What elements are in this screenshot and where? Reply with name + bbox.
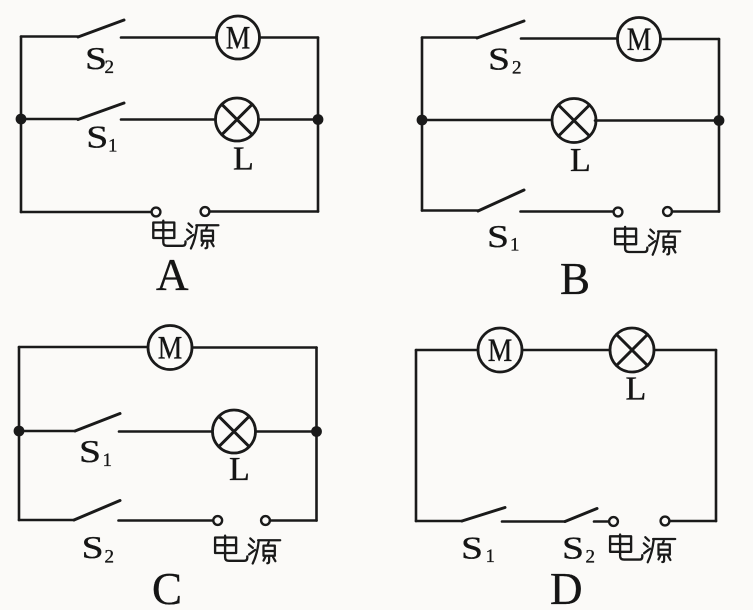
- wire: C bottom contact to battery: [119, 519, 214, 522]
- junction node: A left: [16, 114, 27, 125]
- svg-text:B: B: [560, 254, 590, 304]
- wire: B middle-left to lamp: [422, 119, 552, 122]
- junction node: A right: [313, 114, 324, 125]
- lamp L (circuit C): [213, 410, 256, 453]
- wire: A lamp to right vertical: [259, 118, 319, 121]
- svg-text:A: A: [156, 250, 189, 300]
- wire: D bottom-left segment: [416, 520, 462, 523]
- svg-text:1: 1: [108, 136, 118, 157]
- wire: A top contact to motor: [121, 36, 217, 39]
- wire: D left vertical: [415, 350, 418, 521]
- svg-text:S: S: [488, 41, 510, 77]
- svg-text:L: L: [570, 142, 591, 179]
- switch S2 blade (open): [78, 20, 124, 37]
- svg-text:2: 2: [105, 547, 115, 568]
- wire: B top contact to motor: [521, 37, 618, 40]
- wire: A bottom-left to battery: [21, 211, 152, 214]
- wire: C left vertical: [18, 347, 21, 520]
- svg-text:2: 2: [586, 547, 596, 568]
- wire: D between switches: [502, 520, 565, 523]
- wire: B left vertical: [421, 38, 424, 211]
- svg-text:M: M: [158, 331, 183, 367]
- battery terminal right (circuit D): [661, 517, 670, 526]
- label S1 (circuit C): [79, 433, 112, 471]
- battery terminal right (circuit C): [261, 516, 270, 525]
- svg-text:2: 2: [105, 57, 115, 78]
- label 电源 power source (circuit A): [153, 221, 218, 249]
- label 电源 power source (circuit B): [615, 227, 680, 255]
- svg-text:M: M: [627, 22, 652, 58]
- label S1 (circuit A): [86, 119, 117, 157]
- switch S2 blade (open, circuit B): [477, 21, 524, 38]
- wire: C middle contact to lamp: [119, 430, 213, 433]
- wire: A middle-left segment: [21, 118, 78, 121]
- junction node: B left: [417, 115, 428, 126]
- wire: B motor to right vertical: [661, 38, 720, 41]
- wire: A motor to right vertical: [260, 36, 319, 39]
- wire: C lamp to right vertical: [256, 430, 317, 433]
- motor M (circuit D): [478, 328, 522, 372]
- switch S2 blade (open, circuit C): [74, 501, 120, 521]
- switch S2 blade (open, circuit D): [565, 509, 597, 522]
- svg-text:M: M: [226, 20, 251, 56]
- svg-text:S: S: [82, 529, 104, 565]
- label S1 (circuit B): [487, 218, 520, 256]
- wire: A battery to right vertical: [210, 210, 319, 213]
- svg-text:S: S: [562, 530, 584, 566]
- wire: A right vertical: [317, 38, 320, 212]
- label S2 (circuit A): [85, 40, 114, 78]
- wire: A left vertical: [20, 37, 23, 213]
- svg-text:D: D: [550, 564, 583, 610]
- wire: D top-left to motor: [416, 349, 479, 352]
- wire: D battery to right vertical: [670, 520, 717, 523]
- label 电源 power source (circuit C): [215, 536, 280, 564]
- battery terminal right (circuit A): [201, 207, 210, 216]
- battery terminal right (circuit B): [663, 207, 672, 216]
- wire: C motor to right vertical: [192, 346, 317, 349]
- wire: B top-left segment: [422, 36, 477, 39]
- switch S1 blade (open): [78, 103, 124, 120]
- svg-text:S: S: [86, 119, 108, 155]
- motor M (circuit C): [148, 326, 192, 370]
- svg-text:C: C: [152, 564, 182, 610]
- svg-text:L: L: [626, 371, 647, 408]
- wire: A top-left segment: [21, 35, 78, 38]
- svg-text:1: 1: [510, 235, 520, 256]
- svg-text:1: 1: [486, 546, 496, 567]
- wire: A middle contact to lamp: [121, 118, 216, 121]
- wire: C top-left to motor: [19, 346, 149, 349]
- svg-text:S: S: [461, 530, 483, 566]
- wire: B lamp to right vertical: [595, 119, 719, 122]
- lamp L (circuit D): [610, 328, 654, 372]
- wire: B right vertical: [718, 39, 721, 212]
- battery terminal left (circuit B): [614, 208, 623, 217]
- battery terminal left (circuit D): [609, 517, 618, 526]
- lamp L (circuit A): [216, 98, 259, 141]
- label S2 (circuit B): [488, 41, 522, 79]
- svg-text:S: S: [487, 218, 509, 254]
- label S1 (circuit D): [461, 530, 495, 568]
- battery terminal left (circuit C): [213, 516, 222, 525]
- svg-text:1: 1: [103, 450, 113, 471]
- svg-text:M: M: [488, 333, 513, 369]
- label 电源 power source (circuit D): [610, 535, 675, 563]
- junction node: C right: [311, 426, 322, 437]
- label S2 (circuit C): [82, 529, 114, 568]
- label S2 (circuit D): [562, 530, 595, 568]
- wire: C right vertical: [315, 348, 318, 521]
- junction node: C left: [14, 426, 25, 437]
- wire: C bottom-left segment: [19, 519, 74, 522]
- wire: C middle-left segment: [19, 430, 75, 433]
- wire: B battery to right vertical: [672, 210, 719, 213]
- svg-text:L: L: [229, 451, 250, 488]
- wire: D contact to battery: [594, 520, 609, 523]
- switch S1 blade (open, circuit B): [478, 190, 524, 211]
- wire: D motor to lamp: [522, 349, 611, 352]
- svg-text:2: 2: [512, 58, 522, 79]
- svg-text:S: S: [79, 433, 101, 469]
- wire: B bottom-left segment: [422, 209, 478, 212]
- wire: D lamp to right vertical: [654, 349, 716, 352]
- battery terminal left (circuit A): [152, 208, 161, 217]
- motor M (circuit A): [217, 16, 260, 59]
- switch S1 blade (open, circuit D): [462, 508, 505, 522]
- lamp L (circuit B): [552, 99, 596, 143]
- switch S1 blade (open, circuit C): [75, 414, 120, 432]
- wire: C battery to right vertical: [270, 519, 317, 522]
- svg-text:L: L: [233, 141, 254, 178]
- wire: B bottom contact to battery: [521, 210, 614, 213]
- motor M (circuit B): [618, 18, 661, 61]
- wire: D right vertical: [715, 350, 718, 521]
- junction node: B right: [714, 115, 725, 126]
